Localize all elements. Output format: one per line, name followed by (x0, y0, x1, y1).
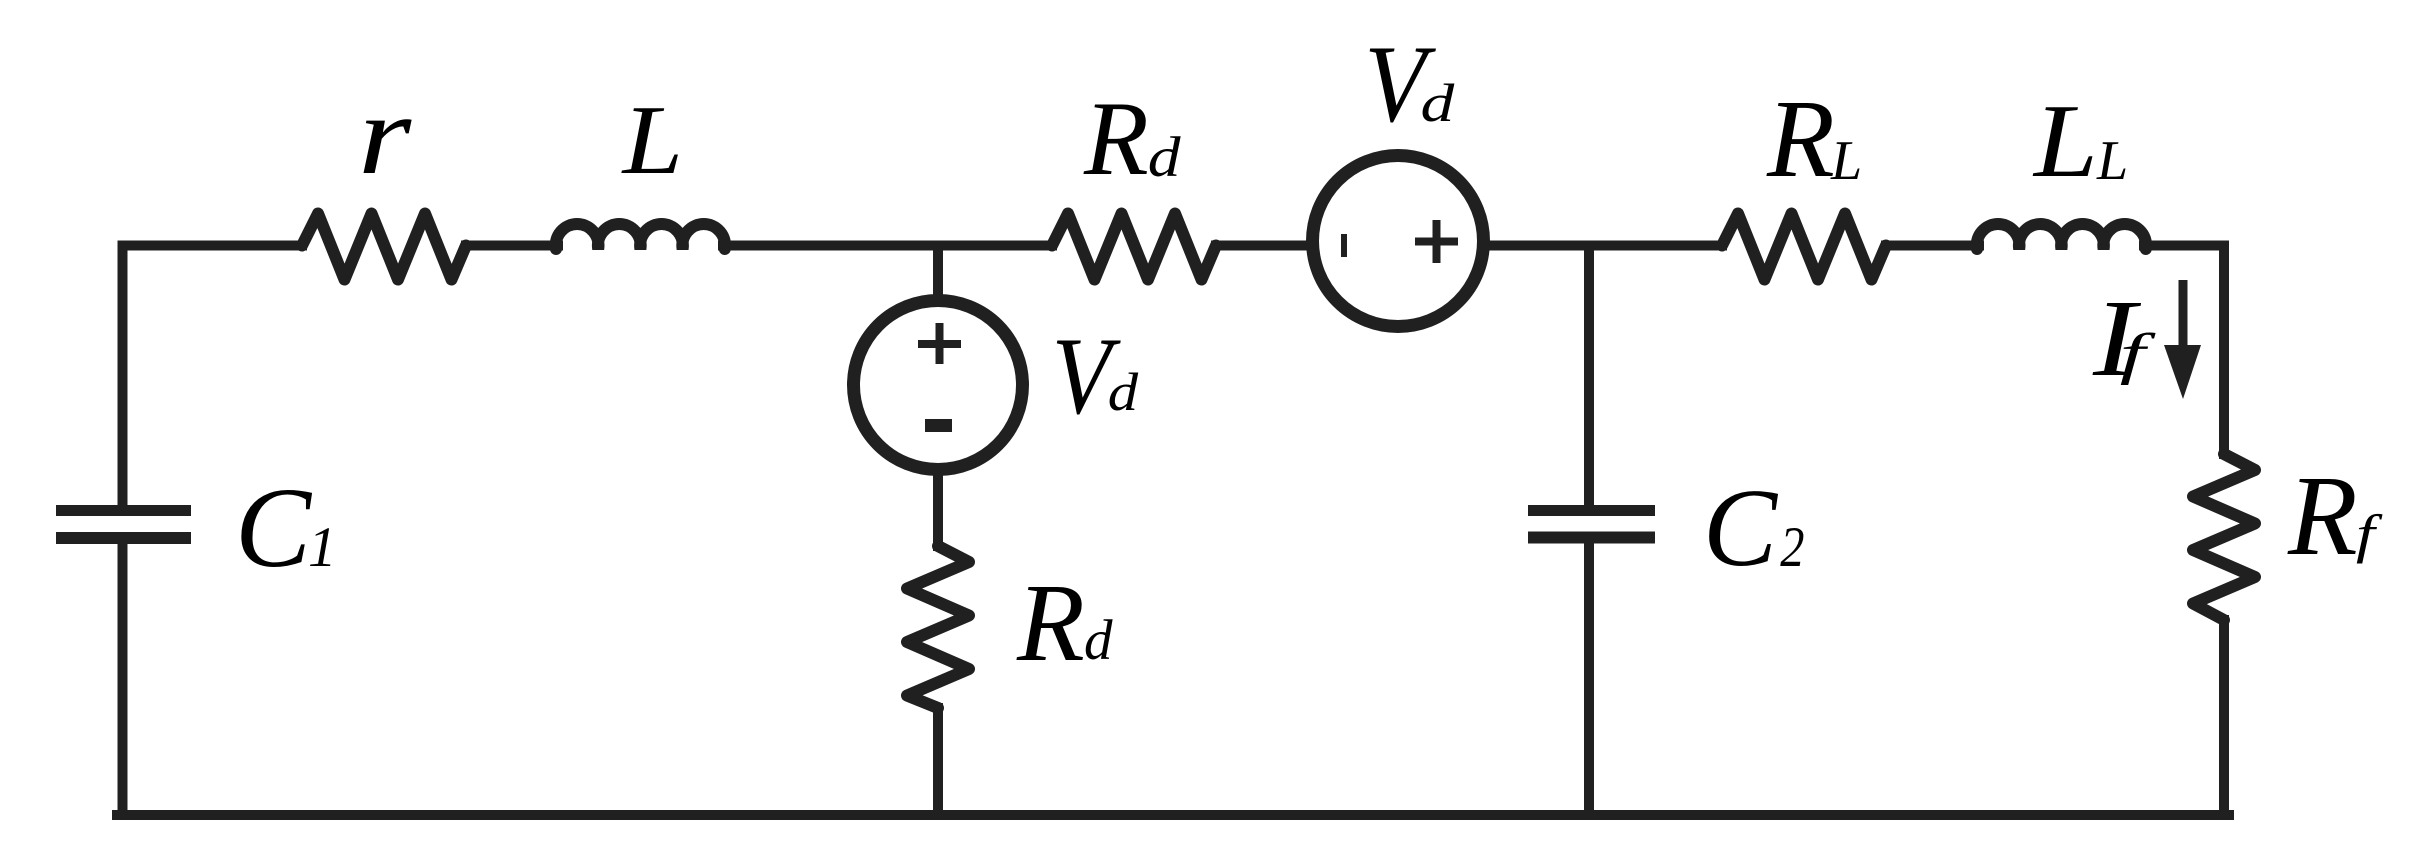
svg-text:L: L (2032, 82, 2098, 198)
svg-text:2: 2 (1780, 516, 1804, 578)
svg-text:f: f (2356, 505, 2384, 564)
svg-text:L: L (2096, 130, 2128, 192)
svg-text:R: R (2287, 452, 2358, 579)
svg-text:R: R (1083, 80, 1149, 197)
svg-text:R: R (1016, 562, 1085, 685)
svg-text:C: C (235, 464, 313, 591)
svg-text:L: L (621, 85, 684, 195)
svg-text:1: 1 (308, 516, 337, 579)
svg-text:C: C (1703, 467, 1779, 590)
svg-text:d: d (1108, 363, 1139, 422)
svg-text:R: R (1766, 78, 1835, 201)
svg-text:r: r (358, 73, 412, 199)
svg-text:d: d (1148, 126, 1181, 189)
svg-text:d: d (1084, 609, 1113, 672)
svg-text:d: d (1421, 74, 1455, 133)
svg-text:L: L (1830, 130, 1862, 192)
svg-text:f: f (2120, 323, 2156, 386)
